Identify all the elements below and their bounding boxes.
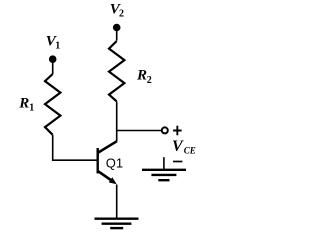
svg-text:R: R bbox=[18, 96, 29, 112]
svg-text:V: V bbox=[172, 138, 184, 155]
svg-text:1: 1 bbox=[55, 41, 60, 52]
svg-text:Q1: Q1 bbox=[106, 155, 123, 170]
svg-text:CE: CE bbox=[184, 146, 196, 156]
svg-text:2: 2 bbox=[147, 75, 152, 86]
svg-text:2: 2 bbox=[119, 8, 124, 19]
svg-text:1: 1 bbox=[29, 102, 34, 113]
svg-text:R: R bbox=[136, 67, 147, 83]
